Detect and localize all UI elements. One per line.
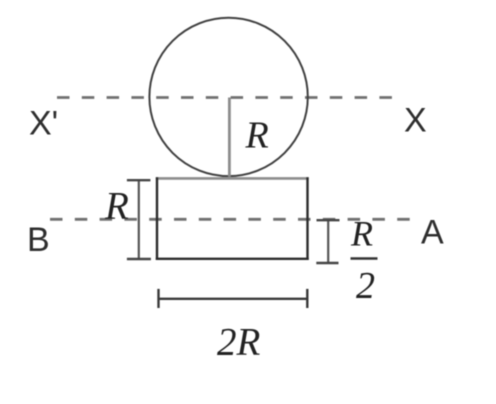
svg-text:R: R <box>245 115 269 157</box>
rectangle bottom edge <box>156 258 309 260</box>
svg-text:R: R <box>104 184 129 227</box>
axis BA dashed line <box>50 218 412 221</box>
svg-text:2R: 2R <box>217 321 261 364</box>
circle (disc of radius R) <box>149 18 307 176</box>
rectangle top edge <box>156 177 309 180</box>
bottom dimension line <box>159 298 308 300</box>
rectangle left edge <box>156 177 158 260</box>
right dimension bracket vertical <box>327 220 329 263</box>
svg-text:X': X' <box>29 104 58 142</box>
svg-text:R: R <box>350 213 373 253</box>
right dimension bracket top cap <box>317 219 340 221</box>
svg-text:X: X <box>404 101 427 139</box>
bottom dimension right tick <box>306 289 308 308</box>
left dimension bracket bottom cap <box>127 258 151 260</box>
bottom dimension left tick <box>157 289 159 308</box>
svg-text:B: B <box>27 221 50 259</box>
radius line <box>228 98 231 177</box>
axis X'X dashed line <box>57 96 395 99</box>
rectangle right edge <box>306 177 308 260</box>
left dimension bracket top cap <box>127 179 150 181</box>
fraction bar <box>351 257 378 260</box>
right dimension bracket bottom cap <box>316 262 338 264</box>
svg-text:2: 2 <box>356 265 375 307</box>
svg-text:A: A <box>421 213 444 251</box>
left dimension bracket vertical <box>138 180 140 259</box>
